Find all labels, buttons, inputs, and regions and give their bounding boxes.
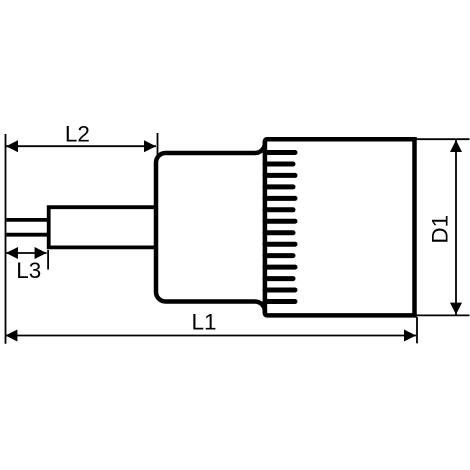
D1 bottom extension line	[416, 314, 470, 316]
knurl tooth 7	[265, 219, 295, 224]
knurl tooth 8	[265, 230, 293, 235]
L2 extension line (collar left)	[157, 133, 159, 161]
knurl tooth 3	[265, 173, 295, 178]
L1 right arrow	[404, 330, 416, 342]
knurl tooth 6	[265, 207, 293, 212]
knurl tooth 10	[265, 253, 293, 258]
knurl tooth 12	[265, 276, 293, 281]
knurl tooth 14	[265, 299, 295, 304]
collar and body outline	[156, 139, 415, 315]
svg-text:D1: D1	[427, 215, 452, 244]
svg-text:L1: L1	[191, 309, 216, 334]
tip top line	[7, 218, 49, 222]
svg-text:L2: L2	[65, 122, 90, 147]
D1 top extension line	[416, 138, 470, 140]
dimension graphics	[5, 133, 469, 344]
knurl tooth 1	[265, 150, 295, 155]
L2 dimension line	[6, 145, 156, 147]
L2 left arrow	[6, 140, 18, 152]
L2 right arrow	[144, 140, 156, 152]
knurl teeth	[265, 153, 295, 302]
D1 dimension line	[455, 140, 457, 315]
knurl tooth 11	[265, 265, 295, 270]
knurl tooth 13	[265, 288, 295, 293]
arrowheads	[5, 140, 462, 342]
body left edge	[263, 141, 268, 314]
D1 bottom arrow	[450, 303, 462, 315]
D1 top arrow	[450, 140, 462, 152]
knurl tooth 9	[265, 242, 295, 247]
L1 dimension line	[5, 335, 416, 337]
L3 right arrow	[35, 247, 47, 259]
L1 left arrow	[5, 330, 17, 342]
L3 dimension line	[6, 252, 47, 254]
knurl tooth 2	[265, 161, 293, 166]
L3 extension line (shaft left)	[47, 250, 49, 270]
shaft	[49, 207, 156, 247]
L3 left arrow	[6, 247, 18, 259]
knurl tooth 4	[265, 184, 293, 189]
knurl tooth 5	[265, 196, 295, 201]
L1 extension line (body right)	[416, 317, 418, 343]
left extension line	[5, 134, 7, 344]
tip bottom line	[7, 233, 49, 237]
svg-text:L3: L3	[16, 258, 41, 283]
